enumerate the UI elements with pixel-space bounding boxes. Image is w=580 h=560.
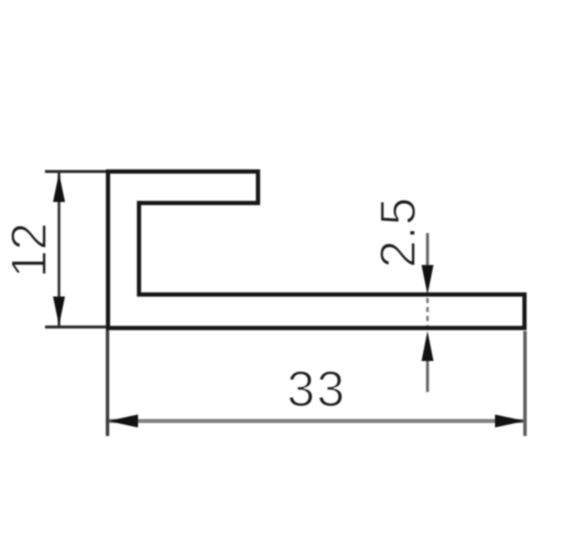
extension line below-left for 33: [106, 330, 109, 436]
extension line below-right for 33: [523, 331, 526, 436]
extension line bottom-left: [45, 326, 106, 329]
leader 2.5 lower: [426, 361, 429, 392]
profile cross-section outline: [108, 172, 525, 329]
svg-text:12: 12: [1, 222, 57, 278]
svg-text:33: 33: [287, 361, 347, 417]
dimension line 33: [109, 419, 524, 423]
arrow 33 left: [108, 415, 138, 428]
leader 2.5 upper: [426, 233, 429, 267]
extension line top-left: [45, 170, 106, 173]
arrow 2.5 down: [422, 265, 434, 295]
leader 2.5 through bar (dashed): [426, 298, 429, 326]
arrow 12 up: [53, 173, 65, 202]
arrow 12 down: [53, 297, 65, 326]
arrow 33 right: [495, 415, 525, 428]
dimension line 12: [58, 173, 61, 326]
svg-text:2.5: 2.5: [370, 197, 426, 268]
arrow 2.5 up: [422, 331, 434, 361]
